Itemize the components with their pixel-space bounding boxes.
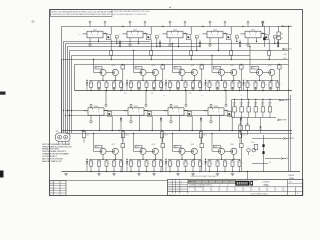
ground D pair 4a [216,174,220,176]
svg-text:F: F [98,111,99,113]
right vertical bus b [290,95,292,172]
svg-text:R61: R61 [249,84,252,86]
test point below Z209 [210,115,212,123]
resistor R256 [209,80,211,82]
resistor R242 [98,80,100,82]
wire title drop [247,171,248,180]
resistor ladder network [232,99,291,118]
resistor R264 [270,80,272,82]
svg-text:Q226: Q226 [191,65,195,67]
svg-text:R80: R80 [241,163,244,165]
svg-text:DRVR: DRVR [135,147,138,149]
transistor pair Q227 area [208,65,241,81]
right vertical bus a [288,26,289,172]
emitter resistor group D pair 4 [208,159,244,172]
svg-text:R55: R55 [202,84,205,86]
wire cell Z201 output drop [98,38,99,42]
svg-text:R75: R75 [202,163,205,165]
flip-flop cell Z204 [199,29,228,38]
transistor Q221 [100,69,106,75]
resistor R303 [224,159,226,161]
wire Q201 emitter drop [110,40,113,61]
svg-text:R76: R76 [211,163,214,165]
diode CR232 [160,117,162,131]
transistor Q229 [145,110,152,116]
drawing border frame [50,10,303,196]
resistor R213 [235,36,238,42]
resistor R254 [192,80,194,82]
bottom ground bus [62,171,301,173]
wire Q213 emitter drop [230,40,233,61]
resistor R293 [146,159,148,161]
resistor R249 [153,80,155,82]
resistor R298 [185,159,187,161]
bank2 bus line 1 [62,130,293,131]
ground bus bank1 [75,90,293,92]
top bus junction dots [122,26,243,27]
ladder sub resistors [239,118,262,136]
transistor Q205 [144,27,151,40]
title block band rows [168,187,303,192]
svg-text:DRVR: DRVR [252,68,255,70]
svg-text:R52: R52 [163,95,166,97]
svg-text:R51: R51 [172,84,175,86]
resistor R258 [224,80,226,82]
svg-text:R273: R273 [164,134,167,136]
svg-text:F: F [133,111,134,113]
svg-text:R66: R66 [133,163,136,165]
svg-text:Q232: Q232 [112,144,116,146]
resistor R281 [121,134,125,172]
svg-text:Q236: Q236 [191,144,195,146]
bus label TP [124,93,243,97]
resistor R253 [185,80,187,82]
flip-flop cell Z203 [159,29,188,38]
transistor pair Q237 area [208,144,241,160]
svg-text:F: F [255,35,256,37]
registration mark [31,20,35,24]
resistor R233 [200,64,204,91]
resistor R259 [232,80,234,82]
resistor R275 [239,131,241,132]
svg-text:F: F [137,35,138,37]
ground left [64,174,68,176]
svg-text:Q228: Q228 [230,65,234,67]
connector J201 [56,131,71,143]
transistor pair Q229 area [246,65,279,81]
resistor R261 [247,80,249,82]
diode CR202 [159,40,161,47]
svg-text:SH 4: SH 4 [289,181,292,183]
transistor Q213 [224,27,231,40]
net arrow mid 1 [278,119,287,122]
svg-text:F: F [177,35,178,37]
resistor R257 [217,80,219,82]
transistor pair Q233 area [129,144,162,160]
svg-text:Z201: Z201 [93,29,97,31]
logo SEEBURG [235,179,257,186]
diode CR221 [86,80,88,91]
title block left columns [168,180,303,196]
wire base feed D pair 1 [93,133,94,152]
diode CR201 [119,40,121,47]
svg-text:DRVR: DRVR [214,147,217,149]
svg-text:F: F [93,111,94,113]
svg-text:C4: C4 [269,162,271,164]
resistor R251 [169,80,171,82]
resistor R302 [217,159,219,161]
svg-text:R46: R46 [133,84,136,86]
svg-text:Q234: Q234 [152,144,156,146]
svg-text:REF: REF [283,120,286,122]
svg-text:+24V: +24V [283,54,287,56]
ground D pair 2a [137,174,141,176]
svg-text:R65: R65 [279,84,282,86]
svg-text:R93: R93 [246,146,249,148]
sheet number 4 [169,5,171,9]
svg-text:Q224: Q224 [152,65,156,67]
svg-text:10K: 10K [261,104,263,106]
flip-flop cell Z202 [119,29,148,38]
svg-text:F: F [138,111,139,113]
wire base feed pair 1 [93,59,94,73]
transistor Q232 [112,148,118,154]
diode CR237 [165,159,167,172]
diode CR205 [277,40,279,47]
ground [137,87,141,89]
top supply bus wire [62,26,293,28]
flip-flop cell Z207 [124,106,149,115]
svg-text:Q230: Q230 [268,65,272,67]
bus junction dots left verticals [63,110,72,116]
transistor Q201 [104,27,111,40]
svg-text:10K: 10K [254,104,256,106]
wire cell Z205 output drop [256,38,257,42]
resistor R235 [278,64,282,91]
title block right cells [288,180,303,196]
resistor R214 [273,36,276,44]
svg-text:F: F [178,111,179,113]
resistor R291 [130,159,132,161]
net arrow low 2 [281,158,289,161]
wire cell Z204 output drop [218,38,219,51]
svg-text:Z205: Z205 [251,29,255,31]
diode CR233 [200,117,202,131]
svg-text:F: F [250,35,251,37]
svg-text:CONTINUED FROM SHEET 3 SEE S: CONTINUED FROM SHEET 3 SEE SHEET 5 [190,176,218,178]
svg-text:R274: R274 [203,134,206,136]
svg-text:R63: R63 [108,163,111,165]
svg-text:4: 4 [169,5,171,9]
wire Q205 emitter drop [150,40,153,61]
wire base feed pair 5 [249,46,250,73]
svg-text:R271: R271 [86,134,89,136]
svg-text:R295: R295 [251,142,254,144]
svg-text:4-1-66: 4-1-66 [168,190,172,192]
svg-text:FORM 1042: FORM 1042 [169,193,176,195]
net label right 2 [283,58,287,60]
wire Z208 output drop [179,115,180,131]
transistor Q225 [179,69,185,75]
net arrow OUT A [282,25,291,28]
svg-text:5-303 E: 5-303 E [288,175,295,177]
resistor R283 [200,134,204,172]
node OUT-A components [263,23,284,47]
ground D pair 2b [152,174,156,176]
left notes text block [42,143,72,163]
ground [176,87,180,89]
resistor R297 [177,159,179,161]
svg-text:R70: R70 [163,163,166,165]
transistor pair Q221 area [89,65,122,81]
transistor Q232 [185,110,192,116]
resistor R305 [239,159,241,161]
bias resistors row [82,130,246,143]
resistor R248 [146,80,148,82]
svg-text:10K: 10K [268,104,270,106]
svg-text:Z202: Z202 [133,29,137,31]
resistor R300 [199,159,201,161]
svg-text:EACH BE TRACK LIST: EACH BE TRACK LIST [42,160,62,163]
resistor R246 [130,80,132,82]
svg-text:R45: R45 [123,84,126,86]
wire Z209 output drop [219,115,220,131]
resistor R232 [161,64,165,91]
resistor R210 [115,36,118,44]
svg-text:J201: J201 [56,131,59,133]
resistor R234 [240,64,244,91]
resistor R304 [232,159,234,161]
svg-text:R61: R61 [93,163,96,165]
svg-text:F: F [213,111,214,113]
resistor R287 [98,159,100,161]
svg-text:Q222: Q222 [112,65,116,67]
transistor Q226 [191,69,197,75]
svg-text:10K: 10K [240,104,242,106]
svg-text:Z204: Z204 [213,29,217,31]
svg-text:R65: R65 [123,163,126,165]
diode CR224 [204,80,206,91]
svg-text:R62: R62 [240,95,243,97]
svg-text:4-1-66: 4-1-66 [168,183,172,185]
test point TP5a [247,38,249,47]
ground [112,87,116,89]
svg-text:R56: R56 [211,84,214,86]
svg-text:R73: R73 [187,163,190,165]
net arrow mid 2 [279,99,288,102]
wire Z206 output drop [99,115,100,131]
resistor R247 [138,80,140,82]
svg-text:R53: R53 [187,84,190,86]
ground D pair 4b [231,174,235,176]
svg-text:5-303 E: 5-303 E [262,182,270,184]
revision table [50,181,66,196]
resistor R231 [121,64,125,91]
wire Q232 emitter drop [192,116,193,131]
transistor Q234 [152,148,158,154]
svg-text:TP3: TP3 [189,93,192,95]
net arrow OUT B [283,48,292,51]
supply terminal lollipops [89,21,264,26]
wire Q209 emitter drop [190,40,193,61]
emitter resistor group pair 4 [208,80,244,91]
svg-text:10K: 10K [233,104,235,106]
svg-text:TP2: TP2 [151,93,154,95]
wire cell Z202 output drop [138,38,139,44]
resistor R211 [155,36,158,47]
resistor R244 [113,80,115,82]
test point below Z206 [90,115,92,123]
emitter resistor group pair 5 [246,80,282,91]
svg-text:4-1-66: 4-1-66 [168,188,172,190]
resistor R265 [277,80,279,82]
resistor R271 [83,131,85,132]
resistor R273 [161,131,163,132]
transistor Q224 [152,69,158,75]
diode CR240 [260,118,262,127]
trimmer pot 2 [252,148,256,156]
test point TP1a [89,38,91,47]
svg-text:R58: R58 [227,84,230,86]
drawing number [262,182,270,187]
resistor R301 [209,159,211,161]
svg-text:R71: R71 [172,163,175,165]
resistor R243 [106,80,108,82]
transistor Q235 [179,148,185,154]
ground [231,87,235,89]
svg-text:R272: R272 [125,134,128,136]
ground D pair 3b [191,174,195,176]
net label low 3 [269,162,271,164]
svg-text:B+: B+ [287,158,289,160]
resistor R296 [169,159,171,161]
svg-text:Z207: Z207 [134,106,138,108]
diode CR238 [204,159,206,172]
notes continuation text [114,10,150,16]
resistor R288 [106,159,108,161]
wire base feed D pair 3 [172,133,173,152]
resistor R255 [199,80,201,82]
title block bottom text [169,192,268,195]
transistor Q236 [191,148,197,154]
transistor Q223 [140,69,146,75]
ground [152,87,156,89]
diode CR204 [239,40,241,47]
flip-flop cell Z209 [204,106,229,115]
transistor Q230 [269,69,275,75]
svg-text:F: F [92,35,93,37]
title text above [190,176,218,178]
svg-text:Z203: Z203 [173,29,177,31]
resistor R241 [90,80,92,82]
terminal above Z207 [130,90,147,108]
svg-text:Z209: Z209 [214,106,218,108]
svg-text:R50: R50 [163,84,166,86]
resistor R282 [161,134,165,172]
resistor R290 [120,159,122,161]
net label right 1 [283,54,287,56]
ground [254,87,258,89]
diode CR223 [165,80,167,91]
resistor R289 [113,159,115,161]
diode CR222 [126,80,128,91]
test point TP3a [169,38,171,47]
bank2 interconnect wires [66,111,232,116]
svg-text:TP1: TP1 [124,93,127,95]
emitter resistor group pair 1 [90,80,126,91]
svg-text:F: F [172,35,173,37]
transistor Q209 [184,27,191,40]
resistor R274 [200,131,202,132]
resistor R263 [262,80,264,82]
resistor R212 [195,36,198,51]
ground [97,87,101,89]
diode CR203 [199,40,201,47]
test point TP4a [209,38,211,47]
transistor pair Q235 area [168,144,201,160]
resistor R250 [160,80,162,82]
text above title right [288,175,295,180]
transistor Q231 [100,148,106,154]
wire cell Z203 output drop [178,38,179,47]
transistor pair Q225 area [168,65,201,81]
svg-text:F: F [218,111,219,113]
ground D pair 3a [176,174,180,176]
svg-text:F: F [173,111,174,113]
ground D pair 1b [112,174,116,176]
transistor Q228 [231,69,237,75]
wire Q226 emitter drop [112,116,113,131]
diode CR225 [242,80,244,91]
svg-text:R94: R94 [252,154,255,156]
svg-text:Z206: Z206 [94,106,98,108]
test point below Z207 [130,115,132,123]
transistor pair Q231 area [89,144,122,160]
wire base feed pair 4 [211,55,212,73]
resistor R292 [138,159,140,161]
net arrow low 1 [283,138,294,141]
ground [191,87,195,89]
resistor R295 [160,159,162,161]
svg-text:DRVR: DRVR [95,147,98,149]
svg-text:DRVR: DRVR [135,68,138,70]
wire Q235 emitter drop [232,116,233,131]
test point below Z208 [170,115,172,123]
transistor Q229 [256,69,262,75]
flip-flop cell Z201 [79,29,108,38]
svg-text:R41: R41 [93,84,96,86]
terminal above Z208 [170,90,187,108]
resistor R262 [255,80,257,82]
wire base feed pair 3 [172,43,173,73]
svg-text:F: F [212,35,213,37]
title block center [188,180,236,188]
svg-text:R48: R48 [148,84,151,86]
svg-text:R275: R275 [242,134,245,136]
wire Z207 output drop [139,115,140,131]
transistor Q235 [225,110,232,116]
transistor Q233 [140,148,146,154]
svg-text:DRVR: DRVR [174,68,177,70]
svg-text:R3: R3 [281,38,283,40]
emitter resistor group pair 2 [130,80,166,91]
transistor Q238 [231,148,237,154]
flip-flop cell Z205 [237,29,266,38]
svg-text:373A: 373A [263,184,269,187]
flip-flop cell Z208 [164,106,189,115]
svg-text:DRVR: DRVR [214,68,217,70]
svg-text:R78: R78 [227,163,230,165]
